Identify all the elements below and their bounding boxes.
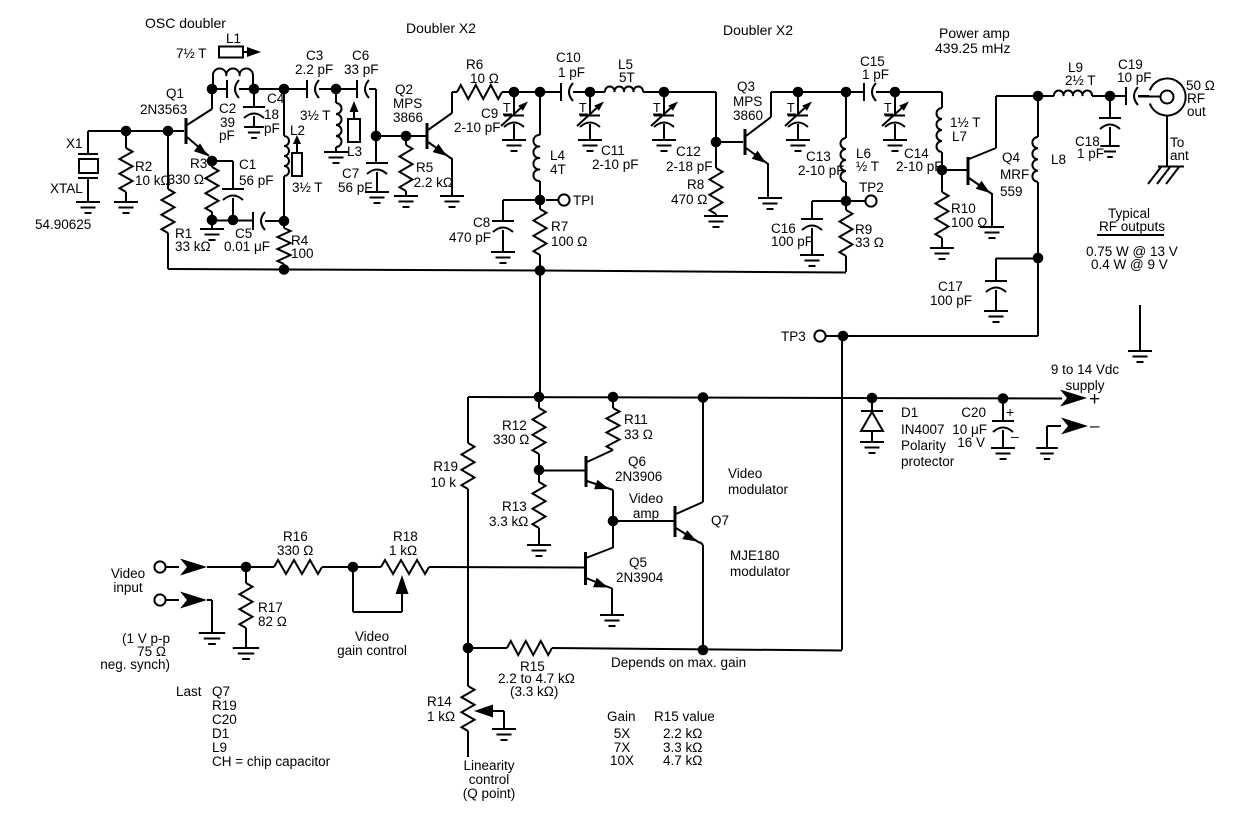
ground for D1 (860, 442, 884, 453)
wire Q4 collector to L9 node (996, 95, 1038, 97)
svg-text:R5: R5 (416, 160, 433, 175)
svg-text:559: 559 (1000, 184, 1023, 199)
svg-text:modulator: modulator (730, 564, 791, 579)
svg-text:T: T (787, 101, 795, 115)
wire Q7 emitter down to gain rail (700, 542, 703, 650)
svg-text:ant: ant (1170, 148, 1189, 163)
capacitor C5 0.01 uF (224, 212, 284, 254)
svg-text:Video: Video (355, 629, 389, 644)
inductor L5 5 turns (590, 57, 664, 92)
wire to Q4 base (942, 169, 967, 171)
inductor L9 2.5 turns (1038, 60, 1110, 96)
RF output connector 50 ohm (1138, 78, 1215, 119)
svg-text:Q3: Q3 (737, 79, 755, 94)
ground for R10 (930, 248, 954, 259)
test point TP3 (781, 329, 838, 344)
svg-text:Q7: Q7 (711, 513, 729, 528)
text: linearity control (Q point) (463, 758, 516, 801)
resistor R13 3.3 k-ohm (489, 470, 546, 545)
svg-text:470 Ω: 470 Ω (671, 192, 707, 207)
svg-text:10X: 10X (610, 753, 634, 768)
svg-text:D1: D1 (901, 405, 918, 420)
svg-text:Depends on max. gain: Depends on max. gain (611, 655, 746, 670)
svg-text:neg. synch): neg. synch) (100, 657, 170, 672)
floating chassis ground near supply (1128, 305, 1152, 362)
node C3/C6/L3 junction (331, 84, 342, 95)
svg-text:MJE180: MJE180 (730, 548, 780, 563)
svg-text:C11: C11 (601, 143, 625, 158)
section title: Doubler X2 (first) (406, 20, 476, 36)
variable capacitor C12 2-18 pF (651, 92, 713, 174)
transistor Q4 MRF 559 (968, 96, 1029, 199)
svg-text:10 Ω: 10 Ω (470, 71, 499, 86)
resistor R2 10 k-ohm (120, 131, 171, 202)
inductor L3 3.5 turns with tuning slug, to ground (300, 89, 362, 159)
wire L8 bottom down to TP3 line (843, 258, 1038, 336)
svg-text:2-18 pF: 2-18 pF (666, 159, 713, 174)
svg-text:–: – (1011, 428, 1019, 444)
svg-text:L1: L1 (226, 31, 241, 46)
svg-text:OSC doubler: OSC doubler (145, 15, 226, 31)
wire +supply rail (468, 397, 1062, 399)
resistor R19 10 k (430, 397, 474, 648)
svg-text:T: T (579, 101, 587, 115)
svg-text:100 pF: 100 pF (771, 234, 813, 249)
svg-text:82 Ω: 82 Ω (258, 614, 287, 629)
node C18 junction (1105, 91, 1116, 102)
capacitor C18 1 pF to ground (1075, 96, 1121, 161)
svg-text:R16: R16 (283, 529, 308, 544)
node L4 top junction (535, 87, 546, 98)
svg-text:C1: C1 (239, 157, 256, 172)
node Q3 base junction (711, 137, 722, 148)
text: depends on max gain (611, 655, 746, 670)
diode D1 IN4007 polarity protector (861, 398, 955, 469)
capacitor C10 1 pF (540, 50, 590, 101)
svg-text:3½ T: 3½ T (292, 180, 323, 195)
ground for C16 (800, 255, 824, 266)
svg-text:R7: R7 (551, 219, 568, 234)
svg-text:33 kΩ: 33 kΩ (175, 239, 211, 254)
svg-text:R12: R12 (502, 418, 527, 433)
wire base rail X1 to Q1 (88, 130, 184, 132)
capacitor C2 39 pF (212, 80, 254, 143)
svg-text:1 pF: 1 pF (558, 65, 585, 80)
resistor R12 330 ohm (493, 397, 546, 470)
svg-text:supply: supply (1065, 378, 1104, 393)
svg-text:R15 value: R15 value (654, 709, 715, 724)
svg-text:Q2: Q2 (395, 82, 413, 97)
svg-text:protector: protector (901, 454, 955, 469)
ground for C20 (991, 448, 1015, 459)
svg-text:C3: C3 (306, 48, 323, 63)
svg-text:Q5: Q5 (629, 555, 647, 570)
svg-text:pF: pF (219, 128, 235, 143)
wire rail C9 to L4 node (514, 91, 546, 93)
svg-text:Q4: Q4 (1002, 150, 1021, 165)
wire Q3 collector to rail (771, 91, 798, 93)
svg-text:modulator: modulator (728, 482, 789, 497)
svg-text:Doubler X2: Doubler X2 (723, 22, 793, 38)
svg-text:330 Ω: 330 Ω (168, 172, 204, 187)
svg-text:R6: R6 (466, 57, 483, 72)
svg-text:Video: Video (111, 566, 145, 581)
svg-text:Polarity: Polarity (901, 438, 946, 453)
resistor R16 330 ohm (274, 529, 381, 574)
resistor R8 470 ohm to ground (671, 142, 723, 216)
resistor R7 100 ohm (534, 200, 588, 270)
inductor L7 1.5 turns (937, 92, 981, 166)
svg-text:(3.3 kΩ): (3.3 kΩ) (510, 684, 558, 699)
capacitor C20 10 uF 16 V (952, 398, 1019, 450)
capacitor C7 56 pF to ground (338, 136, 388, 195)
wire Q6 emitter down to video amp node (612, 490, 614, 521)
wire Q4 emitter to ground (991, 193, 993, 227)
svg-text:L4: L4 (550, 148, 566, 163)
svg-text:Linearity: Linearity (463, 758, 514, 773)
capacitor C17 100 pF to ground (930, 258, 1038, 311)
svg-text:R19: R19 (212, 698, 237, 713)
svg-text:54.90625: 54.90625 (35, 217, 91, 232)
potentiometer R18 1 k-ohm video gain control (353, 529, 585, 612)
resistor R4 100 ohm (278, 221, 314, 269)
ground for R13 (527, 545, 551, 556)
wire to Q3 base (716, 141, 743, 143)
capacitor C6 33 pF (336, 48, 379, 98)
ground for X1 (76, 202, 100, 213)
svg-text:Doubler X2: Doubler X2 (406, 20, 476, 36)
svg-text:Q6: Q6 (628, 454, 646, 469)
node L2/R4 junction (279, 216, 290, 227)
node TP2 junction (841, 196, 852, 207)
svg-text:X1: X1 (66, 136, 83, 151)
svg-text:3860: 3860 (733, 108, 763, 123)
capacitor C19 10 pF (1110, 57, 1152, 105)
svg-text:10 pF: 10 pF (1117, 70, 1152, 85)
inductor L2 3.5 turns with tuning slug (284, 89, 323, 221)
svg-text:2N3906: 2N3906 (615, 469, 662, 484)
svg-text:10 kΩ: 10 kΩ (135, 173, 171, 188)
svg-text:C20: C20 (961, 405, 986, 420)
svg-text:33 Ω: 33 Ω (855, 235, 884, 250)
svg-text:3.3 kΩ: 3.3 kΩ (489, 514, 528, 529)
svg-text:330 Ω: 330 Ω (277, 543, 313, 558)
wire ground-return rail bottom of RF section (168, 268, 846, 273)
svg-text:–: – (1090, 416, 1100, 435)
wire Q7 collector to supply rail (702, 398, 704, 502)
node R11 top junction (608, 392, 619, 403)
svg-text:½ T: ½ T (856, 159, 879, 174)
text: gain / R15 value table (607, 709, 715, 768)
inductor L8 (1032, 96, 1066, 258)
node C20 junction (998, 393, 1009, 404)
antenna chassis ground (1148, 167, 1184, 185)
wire Q5 emitter to ground (611, 588, 613, 614)
svg-text:R10: R10 (951, 201, 976, 216)
test point TP1 (546, 193, 594, 208)
capacitor C1 56 pF (212, 157, 274, 220)
resistor R6 10 ohm (452, 57, 514, 99)
svg-text:C12: C12 (676, 144, 701, 159)
ground for R5 (394, 196, 418, 207)
svg-text:470 pF: 470 pF (449, 230, 491, 245)
wire Q6 base from R12/R13 node (539, 470, 585, 472)
wire C1 bottom to C5 (212, 220, 253, 222)
svg-text:R13: R13 (502, 499, 527, 514)
svg-text:RF outputs: RF outputs (1099, 219, 1165, 234)
svg-text:2.2 kΩ: 2.2 kΩ (663, 726, 702, 741)
node R17 top junction (241, 562, 252, 573)
svg-text:1 pF: 1 pF (1077, 146, 1104, 161)
svg-text:TP2: TP2 (859, 180, 884, 195)
resistor R17 82 ohm to ground (240, 567, 287, 648)
text: video gain control (337, 629, 407, 658)
node Q1 base junction (163, 126, 174, 137)
node L8/L9 junction (1033, 91, 1044, 102)
svg-text:out: out (1187, 104, 1206, 119)
svg-text:2-10 pF: 2-10 pF (896, 159, 943, 174)
svg-text:TPI: TPI (573, 193, 594, 208)
svg-text:MRF: MRF (1000, 167, 1029, 182)
inductor L6 0.5 turn (841, 92, 880, 196)
svg-text:XTAL: XTAL (50, 181, 83, 196)
svg-text:33 Ω: 33 Ω (624, 427, 653, 442)
svg-text:1 pF: 1 pF (862, 67, 889, 82)
svg-text:R3: R3 (190, 156, 207, 171)
svg-text:1 kΩ: 1 kΩ (427, 709, 455, 724)
node L6 top junction (841, 87, 852, 98)
svg-text:100 Ω: 100 Ω (551, 234, 587, 249)
inductor L1 7.5 turns with tuning slug (176, 31, 261, 89)
wire video line to R17 node (207, 566, 274, 568)
wire connector to antenna ground (1167, 116, 1189, 167)
svg-text:(Q point): (Q point) (463, 786, 516, 801)
node C13 junction (793, 87, 804, 98)
svg-text:R11: R11 (624, 412, 648, 427)
node R3 bottom (207, 215, 218, 226)
transistor Q2 MPS 3866 (393, 82, 452, 159)
emitter resistor network junction R3 top (207, 156, 218, 167)
node Q4 base junction (937, 165, 948, 176)
svg-text:1 kΩ: 1 kΩ (389, 543, 417, 558)
svg-text:TP3: TP3 (781, 329, 806, 344)
section title: Power amp 439.25 mHz (935, 25, 1010, 56)
wire rail C12 node to Q3 base corner (664, 92, 716, 142)
transistor Q7 MJE180 (675, 502, 729, 543)
node TP3 junction (838, 331, 849, 342)
svg-text:100 pF: 100 pF (930, 293, 972, 308)
svg-text:CH = chip capacitor: CH = chip capacitor (212, 754, 331, 769)
ground for Q5 (600, 615, 624, 626)
capacitor C4 18 pF to ground (243, 89, 285, 136)
svg-text:R8: R8 (687, 177, 704, 192)
text: 9 to 14 Vdc supply (1051, 362, 1120, 393)
capacitor C3 2.2 pF (284, 48, 336, 98)
ground for input shield (199, 633, 225, 644)
svg-text:R17: R17 (258, 600, 283, 615)
svg-text:10 k: 10 k (430, 475, 456, 490)
svg-text:D1: D1 (212, 726, 229, 741)
svg-text:7½ T: 7½ T (176, 46, 207, 61)
svg-text:3½ T: 3½ T (300, 108, 331, 123)
wire to R5 node (376, 135, 406, 137)
resistor R3 330 ohm (168, 156, 219, 220)
capacitor C15 1 pF (846, 54, 895, 101)
variable capacitor C14 2-10 pF (882, 92, 943, 174)
node R5 junction (401, 131, 412, 142)
svg-text:T: T (653, 101, 661, 115)
node C7 junction (371, 131, 382, 142)
node C2/C4 junction (249, 84, 260, 95)
svg-text:5T: 5T (619, 70, 635, 85)
svg-text:3866: 3866 (393, 110, 423, 125)
ground for Q3 emitter (758, 198, 782, 209)
svg-text:2-10 pF: 2-10 pF (454, 120, 501, 135)
svg-text:gain control: gain control (337, 643, 407, 658)
svg-text:330 Ω: 330 Ω (493, 432, 529, 447)
svg-text:2-10 pF: 2-10 pF (592, 157, 639, 172)
node Q1 collector on osc rail (207, 84, 218, 95)
ground for C18 (1100, 146, 1119, 157)
resistor R11 33 ohm (607, 397, 653, 450)
text: MJE180 modulator (730, 548, 791, 579)
text: video modulator (728, 466, 789, 497)
transistor Q3 MPS 3860 (733, 79, 771, 164)
ground for L3 (324, 152, 348, 163)
svg-text:2-10 pF: 2-10 pF (798, 163, 845, 178)
ground for R8 (704, 216, 728, 227)
variable capacitor C9 2-10 pF (454, 92, 528, 151)
wire Q7 base (613, 520, 674, 522)
svg-text:IN4007: IN4007 (901, 422, 945, 437)
svg-text:0.4 W @ 9 V: 0.4 W @ 9 V (1091, 257, 1168, 272)
svg-text:pF: pF (264, 121, 280, 136)
svg-text:Video: Video (629, 491, 663, 506)
svg-text:C10: C10 (556, 50, 581, 65)
node C12 junction (659, 87, 670, 98)
svg-text:C7: C7 (342, 166, 359, 181)
inductor L4 4 turns (533, 92, 565, 195)
resistor R9 33 ohm (840, 201, 884, 272)
svg-text:R18: R18 (393, 529, 418, 544)
wire C6 down to Q2 base node (375, 89, 377, 136)
svg-text:2N3563: 2N3563 (140, 102, 187, 117)
node Q7 emitter junction on gain rail (698, 645, 709, 656)
ground for C4 (244, 127, 264, 138)
svg-text:Q1: Q1 (166, 86, 184, 101)
ground for Q4 emitter (980, 227, 1004, 238)
ground for R2 (114, 202, 138, 213)
svg-text:MPS: MPS (733, 94, 762, 109)
svg-text:Gain: Gain (607, 709, 636, 724)
svg-text:56 pF: 56 pF (239, 173, 274, 188)
resistor R1 33 k-ohm (162, 131, 211, 268)
wire rail to L6 node (798, 91, 846, 93)
svg-text:4T: 4T (550, 162, 566, 177)
node C1 bottom (228, 215, 239, 226)
svg-text:C17: C17 (938, 279, 963, 294)
wire to Q2 base (406, 135, 426, 137)
node Q7 collector junction (698, 392, 709, 403)
text: 1 V p-p 75 ohm neg. synch (100, 631, 170, 672)
capacitor C8 470 pF to ground (449, 200, 540, 252)
svg-text:2.2 kΩ: 2.2 kΩ (414, 175, 453, 190)
svg-text:5X: 5X (614, 726, 631, 741)
svg-text:R14: R14 (427, 694, 452, 709)
svg-text:16 V: 16 V (957, 435, 985, 450)
svg-text:T: T (884, 101, 892, 115)
svg-text:L7: L7 (952, 129, 967, 144)
svg-text:18: 18 (264, 107, 279, 122)
resistor R15 2.2 to 4.7 k-ohm (468, 641, 842, 699)
svg-text:L2: L2 (290, 123, 305, 138)
svg-text:33 pF: 33 pF (344, 62, 379, 77)
svg-text:100: 100 (291, 246, 314, 261)
svg-text:C6: C6 (352, 48, 369, 63)
svg-text:9 to 14 Vdc: 9 to 14 Vdc (1051, 362, 1120, 377)
text: video input (111, 566, 145, 595)
svg-text:R2: R2 (135, 159, 152, 174)
transistor Q1 2N3563 (140, 86, 212, 156)
node video amp junction Q6/Q5/Q7 (608, 516, 619, 527)
svg-text:2½ T: 2½ T (1065, 73, 1096, 88)
text: video amp (629, 491, 663, 521)
svg-text:Power amp: Power amp (939, 25, 1010, 41)
node R2 top junction (121, 126, 132, 137)
svg-text:0.01 μF: 0.01 μF (224, 239, 270, 254)
svg-text:Last: Last (176, 684, 202, 699)
supply - output arrow (1047, 416, 1100, 448)
ground for R3 (200, 220, 224, 240)
svg-text:control: control (469, 772, 510, 787)
potentiometer R14 1 k-ohm linearity control (427, 648, 504, 757)
test point TP2 (851, 180, 884, 207)
svg-text:4.7 kΩ: 4.7 kΩ (663, 753, 702, 768)
svg-text:C8: C8 (473, 215, 490, 230)
wire mid vertical from rail to supply rail (539, 270, 541, 397)
wire TP3 vertical down to modulator rail (841, 336, 843, 650)
video input terminal 1 (154, 559, 207, 576)
node C14 junction (890, 87, 901, 98)
ground for C7 (365, 192, 389, 203)
node R4 bottom on ground rail (279, 264, 290, 275)
node R7 bottom on ground rail (535, 265, 546, 276)
svg-text:MPS: MPS (393, 96, 422, 111)
svg-text:C2: C2 (219, 101, 236, 116)
section title: OSC doubler (145, 15, 226, 31)
node TP1 junction (535, 195, 546, 206)
node R14/R15 junction (463, 643, 474, 654)
svg-text:L8: L8 (1051, 152, 1066, 167)
crystal X1 (35, 131, 98, 232)
svg-text:C13: C13 (806, 149, 831, 164)
wire rail C14 node to L7 (895, 91, 942, 93)
svg-text:439.25 mHz: 439.25 mHz (935, 40, 1010, 56)
svg-text:C20: C20 (212, 712, 237, 727)
node C9 junction (509, 87, 520, 98)
svg-text:Video: Video (728, 466, 762, 481)
wire Q2 emitter to ground (451, 158, 453, 196)
variable capacitor C11 2-10 pF (577, 92, 639, 172)
svg-text:L3: L3 (347, 144, 362, 159)
wire osc rail C4 to L2 node (254, 88, 284, 90)
svg-text:R19: R19 (433, 459, 458, 474)
ground for R14 wiper (492, 729, 516, 740)
node R12/R13 junction (534, 465, 545, 476)
wire Q3 emitter to ground (767, 163, 769, 198)
variable capacitor C13 2-10 pF (785, 92, 845, 178)
resistor R10 100 ohm to ground (936, 170, 988, 248)
